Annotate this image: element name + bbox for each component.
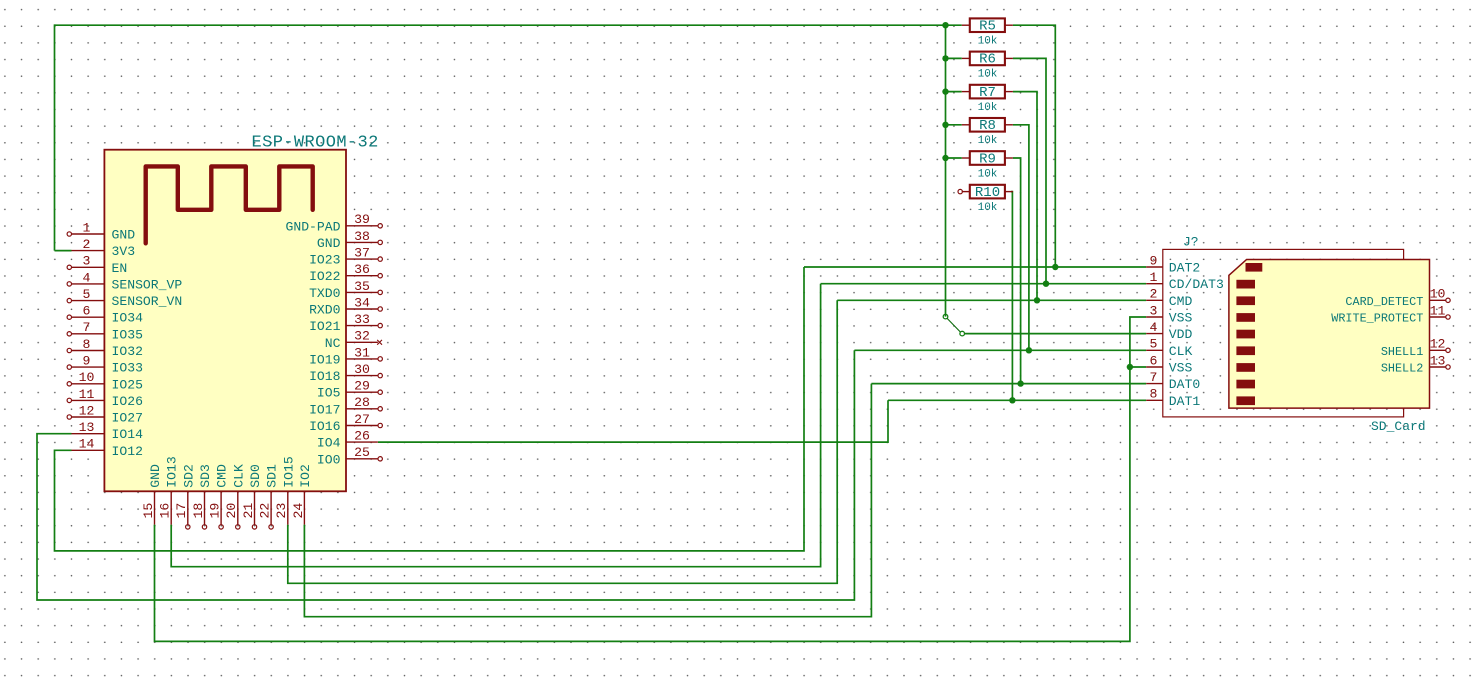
resistor R8 10k: [962, 118, 1013, 147]
J pin 13 SHELL2: [1381, 353, 1450, 375]
svg-text:TXD0: TXD0: [309, 286, 341, 301]
junction GND at VSS pin 6: [1127, 364, 1133, 370]
svg-text:IO21: IO21: [309, 319, 341, 334]
wire R10 to connector row: [1011, 192, 1013, 401]
J pin 2 CMD: [1146, 287, 1192, 309]
wire stub to R6 left: [946, 57, 962, 59]
wire DAT0 vertical and bottom run to ESP IO2: [304, 384, 871, 617]
svg-text:R8: R8: [979, 118, 996, 134]
svg-text:20: 20: [224, 503, 239, 519]
svg-text:IO16: IO16: [309, 419, 340, 434]
svg-text:IO15: IO15: [281, 456, 296, 488]
ESP pin 39 GND-PAD: [285, 212, 382, 234]
ESP pin 34 RXD0: [309, 295, 382, 317]
svg-text:IO19: IO19: [309, 352, 340, 367]
svg-text:5: 5: [83, 287, 91, 302]
svg-text:DAT1: DAT1: [1169, 394, 1201, 409]
svg-text:33: 33: [354, 312, 370, 327]
svg-text:13: 13: [1430, 353, 1446, 368]
svg-text:32: 32: [354, 329, 370, 344]
svg-text:GND-PAD: GND-PAD: [285, 219, 340, 234]
wire net CLK row: [854, 349, 1146, 351]
svg-text:2: 2: [83, 237, 91, 252]
ESP pin 29 IO5: [317, 379, 382, 401]
svg-text:9: 9: [1150, 253, 1158, 268]
wire net DAT1 row: [888, 399, 1146, 401]
svg-text:SENSOR_VN: SENSOR_VN: [112, 294, 183, 309]
ESP pin 7 IO35: [67, 320, 143, 342]
svg-text:3: 3: [83, 254, 91, 269]
svg-text:R10: R10: [975, 185, 1000, 201]
J pin 8 DAT1: [1146, 387, 1200, 409]
ESP pin 26 IO4: [317, 429, 378, 451]
svg-text:10k: 10k: [978, 168, 998, 180]
svg-text:VSS: VSS: [1169, 361, 1193, 376]
ESP pin 13 IO14: [72, 420, 144, 442]
svg-text:29: 29: [354, 379, 370, 394]
svg-text:35: 35: [354, 279, 370, 294]
svg-text:SD0: SD0: [248, 464, 263, 488]
svg-text:25: 25: [354, 445, 370, 460]
junction DAT0: [1017, 380, 1023, 386]
svg-text:RXD0: RXD0: [309, 303, 341, 318]
resistor R10 unconnected left pin circle: [958, 189, 962, 193]
svg-text:IO32: IO32: [112, 344, 143, 359]
ESP pin 3 EN: [67, 254, 127, 276]
wire CD/DAT3 vertical and bottom run to ESP IO13: [171, 284, 820, 567]
svg-text:R9: R9: [979, 151, 996, 167]
svg-text:26: 26: [354, 429, 370, 444]
svg-text:14: 14: [79, 437, 95, 452]
svg-text:IO4: IO4: [317, 436, 341, 451]
svg-text:SHELL2: SHELL2: [1381, 362, 1423, 376]
svg-text:SD_Card: SD_Card: [1371, 419, 1426, 434]
svg-text:10: 10: [1430, 287, 1446, 302]
svg-text:10k: 10k: [978, 36, 998, 48]
svg-text:R7: R7: [979, 85, 996, 101]
svg-text:16: 16: [158, 503, 173, 519]
svg-text:23: 23: [274, 503, 289, 519]
ESP pin 16 IO13: [158, 456, 180, 524]
svg-text:13: 13: [79, 420, 95, 435]
ESP pin 30 IO18: [309, 362, 382, 384]
J pin 12 SHELL1: [1381, 337, 1450, 359]
svg-text:30: 30: [354, 362, 370, 377]
svg-text:IO12: IO12: [112, 444, 143, 459]
junction CLK: [1026, 347, 1032, 353]
junction DAT1: [1009, 397, 1015, 403]
svg-text:8: 8: [83, 337, 91, 352]
wire CLK vertical and bottom run to ESP IO14: [37, 350, 854, 600]
svg-text:IO35: IO35: [112, 327, 144, 342]
svg-text:18: 18: [191, 503, 206, 519]
svg-text:10: 10: [79, 370, 95, 385]
ESP pin 14 IO12: [72, 437, 143, 459]
svg-text:IO33: IO33: [112, 361, 144, 376]
svg-text:3: 3: [1150, 303, 1158, 318]
wire net DAT0 row: [871, 383, 1146, 385]
wire net DAT2 row: [804, 266, 1146, 268]
svg-text:3V3: 3V3: [112, 244, 136, 259]
ESP pin 9 IO33: [67, 354, 143, 376]
svg-text:15: 15: [141, 503, 156, 519]
junction 3V3 at R9: [942, 155, 948, 161]
svg-text:10k: 10k: [978, 202, 998, 214]
svg-text:GND: GND: [112, 228, 136, 243]
ESP pin 23 IO15: [274, 456, 296, 524]
svg-text:IO5: IO5: [317, 386, 341, 401]
svg-text:SENSOR_VP: SENSOR_VP: [112, 277, 183, 292]
ESP pin 22 SD1: [258, 464, 280, 529]
J pin 1 CD/DAT3: [1146, 270, 1224, 292]
svg-text:EN: EN: [112, 261, 128, 276]
svg-text:IO2: IO2: [298, 464, 313, 488]
svg-text:4: 4: [1150, 320, 1158, 335]
wire net GND from ESP pin 15 to J VSS: [155, 317, 1147, 641]
SD card contact pads: [1236, 263, 1262, 405]
IC U1 ESP-WROOM-32 body: [104, 150, 346, 492]
svg-text:SD2: SD2: [181, 464, 196, 488]
svg-text:WRITE_PROTECT: WRITE_PROTECT: [1331, 312, 1423, 326]
svg-text:1: 1: [1150, 270, 1158, 285]
junction 3V3 at R7: [942, 88, 948, 94]
svg-text:GND: GND: [317, 236, 341, 251]
wire dangling end circle upper: [943, 314, 948, 319]
J pin 5 CLK: [1146, 337, 1192, 359]
ESP pin 18 SD3: [191, 464, 213, 529]
J pin 4 VDD: [1146, 320, 1192, 342]
wire R8 to connector row: [1013, 125, 1029, 350]
svg-text:CD/DAT3: CD/DAT3: [1169, 277, 1224, 292]
wire DAT1 vertical to IO4 row: [378, 400, 888, 442]
svg-text:7: 7: [83, 320, 91, 335]
svg-text:9: 9: [83, 354, 91, 369]
antenna meander symbol: [146, 166, 313, 243]
svg-text:IO23: IO23: [309, 253, 341, 268]
svg-text:8: 8: [1150, 387, 1158, 402]
wire dangling end circle lower: [960, 331, 965, 336]
ESP pin 31 IO19: [309, 345, 382, 367]
svg-text:10k: 10k: [978, 69, 998, 81]
wire net CMD row: [837, 299, 1146, 301]
junction CD/DAT3: [1043, 281, 1049, 287]
svg-text:GND: GND: [148, 464, 163, 488]
svg-text:IO34: IO34: [112, 311, 144, 326]
ESP pin 36 IO22: [309, 262, 382, 284]
SD card shape: [1229, 260, 1430, 409]
ESP pin 1 GND: [67, 220, 135, 242]
svg-text:VDD: VDD: [1169, 327, 1193, 342]
svg-text:IO18: IO18: [309, 369, 340, 384]
ESP pin 17 SD2: [174, 464, 196, 529]
J pin 7 DAT0: [1146, 370, 1200, 392]
ESP pin 38 GND: [317, 229, 382, 251]
junction 3V3 at R6: [942, 55, 948, 61]
J pin 3 VSS: [1146, 303, 1192, 325]
svg-text:IO0: IO0: [317, 452, 341, 467]
svg-text:4: 4: [83, 270, 91, 285]
ESP pin 15 GND: [141, 464, 163, 525]
wire R5 to connector row: [1013, 25, 1055, 267]
svg-text:SD1: SD1: [265, 464, 280, 488]
svg-text:IO17: IO17: [309, 402, 340, 417]
wire R6 to connector row: [1013, 58, 1046, 283]
ESP pin 6 IO34: [67, 304, 143, 326]
svg-text:1: 1: [83, 220, 91, 235]
wire net VDD to J pin 4: [964, 333, 1146, 335]
svg-text:17: 17: [174, 503, 189, 519]
resistor R10 10k: [962, 185, 1013, 214]
wire GND branch to J pin 6 VSS: [1130, 366, 1146, 368]
svg-text:7: 7: [1150, 370, 1158, 385]
resistor R5 10k: [962, 18, 1013, 47]
svg-text:VSS: VSS: [1169, 311, 1193, 326]
svg-text:21: 21: [241, 503, 256, 519]
ESP pin 11 IO26: [67, 387, 143, 409]
svg-text:12: 12: [1430, 337, 1446, 352]
svg-text:DAT2: DAT2: [1169, 261, 1200, 276]
wire DAT2 vertical and bottom run to ESP IO12: [55, 267, 805, 551]
ESP pin 8 IO32: [67, 337, 143, 359]
svg-text:10k: 10k: [978, 102, 998, 114]
svg-text:2: 2: [1150, 287, 1158, 302]
svg-text:10k: 10k: [978, 135, 998, 147]
svg-text:CMD: CMD: [215, 464, 230, 488]
svg-text:R6: R6: [979, 52, 996, 68]
resistor R7 10k: [962, 85, 1013, 114]
ESP pin 24 IO2: [291, 464, 313, 524]
wire stub to R7 left: [946, 91, 962, 93]
wire net 3V3 to ESP pin 2: [55, 250, 72, 252]
ESP pin 21 SD0: [241, 464, 263, 529]
svg-text:31: 31: [354, 345, 370, 360]
svg-text:39: 39: [354, 212, 370, 227]
svg-text:CMD: CMD: [1169, 294, 1193, 309]
thin diagonal link: [947, 318, 961, 332]
svg-text:CLK: CLK: [231, 464, 246, 488]
junction 3V3 at R5: [942, 22, 948, 28]
ESP pin 37 IO23: [309, 246, 382, 268]
svg-text:IO25: IO25: [112, 377, 144, 392]
wire 3V3 pull-up chain vertical: [945, 25, 947, 316]
wire CMD vertical and bottom run to ESP IO15: [288, 300, 837, 583]
ESP pin 5 SENSOR_VN: [67, 287, 182, 309]
J pin 6 VSS: [1146, 353, 1192, 375]
svg-text:6: 6: [1150, 353, 1158, 368]
wire R9 to connector row: [1013, 158, 1021, 384]
wire R7 to connector row: [1013, 92, 1037, 301]
junction CMD: [1034, 297, 1040, 303]
svg-text:38: 38: [354, 229, 370, 244]
ESP pin 33 IO21: [309, 312, 382, 334]
wire stub to R9 left: [946, 157, 962, 159]
wire net 3V3 horizontal top: [55, 24, 962, 26]
svg-text:24: 24: [291, 503, 306, 519]
svg-text:28: 28: [354, 395, 370, 410]
svg-text:DAT0: DAT0: [1169, 377, 1201, 392]
svg-text:27: 27: [354, 412, 370, 427]
svg-text:11: 11: [1430, 303, 1446, 318]
svg-text:IO13: IO13: [165, 456, 180, 488]
resistor R9 10k: [962, 151, 1013, 180]
svg-text:J?: J?: [1183, 235, 1199, 250]
svg-text:12: 12: [79, 403, 95, 418]
ESP pin 10 IO25: [67, 370, 143, 392]
svg-text:22: 22: [258, 503, 273, 519]
ESP pin 4 SENSOR_VP: [67, 270, 182, 292]
wire stub to R8 left: [946, 124, 962, 126]
svg-text:36: 36: [354, 262, 370, 277]
ESP pin 19 CMD: [208, 464, 230, 529]
svg-text:IO27: IO27: [112, 411, 143, 426]
ESP pin 32 NC: [325, 329, 382, 351]
svg-text:R5: R5: [979, 19, 996, 35]
ESP pin 27 IO16: [309, 412, 382, 434]
svg-text:37: 37: [354, 246, 370, 261]
wire net 3V3 vertical left: [54, 24, 56, 250]
svg-text:11: 11: [79, 387, 95, 402]
ESP pin 2 3V3: [72, 237, 136, 259]
svg-text:5: 5: [1150, 337, 1158, 352]
svg-text:ESP-WROOM-32: ESP-WROOM-32: [252, 134, 379, 153]
resistor R6 10k: [962, 52, 1013, 81]
J pin 10 CARD_DETECT: [1345, 287, 1450, 309]
ESP pin 28 IO17: [309, 395, 382, 417]
junction 3V3 at R8: [942, 122, 948, 128]
ESP pin 20 CLK: [224, 464, 246, 529]
ESP pin 25 IO0: [317, 445, 382, 467]
svg-text:6: 6: [83, 304, 91, 319]
svg-text:CARD_DETECT: CARD_DETECT: [1345, 295, 1423, 309]
svg-text:NC: NC: [325, 336, 341, 351]
J pin 11 WRITE_PROTECT: [1331, 303, 1450, 325]
svg-text:IO26: IO26: [112, 394, 143, 409]
svg-text:IO22: IO22: [309, 269, 340, 284]
ESP pin 12 IO27: [67, 403, 143, 425]
svg-text:19: 19: [208, 503, 223, 519]
junction DAT2: [1052, 264, 1058, 270]
wire net CD/DAT3 row: [821, 283, 1147, 285]
ESP pin 35 TXD0: [309, 279, 382, 301]
svg-text:IO14: IO14: [112, 427, 144, 442]
svg-text:SD3: SD3: [198, 464, 213, 488]
J pin 9 DAT2: [1146, 253, 1200, 275]
svg-text:34: 34: [354, 295, 370, 310]
svg-text:SHELL1: SHELL1: [1381, 345, 1423, 359]
svg-text:CLK: CLK: [1169, 344, 1193, 359]
connector J? outer outline: [1163, 249, 1404, 417]
